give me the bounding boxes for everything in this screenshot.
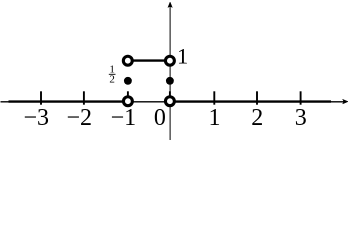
filled dot at (-1, 1/2) — [124, 77, 132, 85]
x-axis thin line — [1, 101, 347, 103]
open circle at (0, 0) — [165, 97, 174, 106]
graph segment y=0 right (x > 0) — [170, 100, 331, 102]
graph segment y=1 (-1 < x < 0) — [128, 59, 170, 61]
tick 2 — [256, 91, 258, 104]
svg-text:−1: −1 — [111, 105, 137, 131]
tick -3 — [40, 91, 42, 104]
tick 3 — [300, 91, 302, 104]
y-axis top arrowhead — [168, 2, 172, 8]
graph segment y=0 left (x < -1) — [9, 100, 128, 102]
svg-text:1: 1 — [177, 44, 188, 69]
open circle at (-1, 1) — [123, 56, 132, 65]
svg-text:2: 2 — [109, 73, 115, 85]
tick -1 — [127, 91, 129, 104]
svg-text:−2: −2 — [67, 105, 93, 131]
open circle at (0, 1) — [165, 56, 174, 65]
tick -2 — [83, 91, 85, 104]
svg-text:−3: −3 — [24, 105, 50, 131]
tick 1 — [213, 91, 215, 104]
label 1/2 fraction bar — [109, 73, 116, 75]
svg-text:0: 0 — [154, 105, 166, 131]
svg-text:2: 2 — [251, 105, 263, 131]
svg-text:1: 1 — [209, 105, 221, 131]
y-axis line — [169, 5, 171, 141]
svg-text:3: 3 — [295, 105, 307, 131]
open circle at (-1, 0) — [123, 97, 132, 106]
tick 0 — [169, 91, 171, 104]
x-axis right arrowhead — [343, 99, 348, 104]
filled dot at (0, 1/2) — [166, 77, 174, 85]
